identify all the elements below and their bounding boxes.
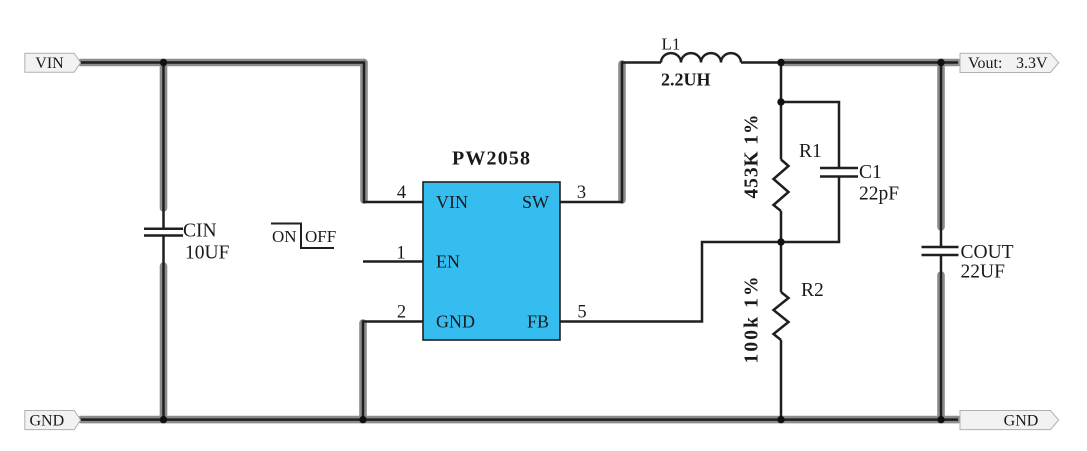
node L1 output [777,59,784,66]
svg-text:EN: EN [436,252,460,272]
capacitor C1 plates [820,168,858,177]
wire bottom GND rail (gray) [81,416,958,424]
wire COUT bottom branch (gray) [937,275,945,417]
svg-text:ON: ON [272,227,297,246]
svg-text:22UF: 22UF [961,261,1006,282]
wire VIN top rail (gray underlay) [81,59,364,67]
svg-text:4: 4 [397,183,406,203]
svg-text:CIN: CIN [183,221,217,242]
svg-text:VIN: VIN [436,192,468,212]
wire C1 top branch [781,102,839,168]
wire CIN top branch (gray) [160,64,168,208]
svg-text:GND: GND [1004,413,1039,430]
svg-text:1: 1 [396,244,405,264]
wire EN stub [363,260,423,263]
wire R2 bottom to GND rail [780,340,783,420]
wire top right rail (gray) [781,63,941,228]
capacitor CIN plates [144,229,183,236]
op-amp U1 PW2058 IC body [423,182,560,340]
svg-text:R1: R1 [799,141,822,162]
svg-text:10UF: 10UF [185,242,230,263]
wire SW to inductor [560,63,661,203]
port tag GND right [960,411,1059,430]
wire VIN rail black line [80,63,423,203]
node CIN-GND [160,416,167,423]
wire pin2 to GND rail (gray) [359,323,367,417]
wire CIN lower black line [162,236,165,420]
svg-text:GND: GND [29,413,64,430]
node COUT-GND [937,416,944,423]
node R2-GND [777,416,784,423]
svg-text:SW: SW [522,192,549,212]
wire FB path [560,242,781,322]
svg-text:453K 1%: 453K 1% [742,115,763,199]
svg-text:3: 3 [577,183,586,203]
wire CIN branch black line [162,63,165,229]
wire to Vout tag black [941,61,958,64]
switch ON/OFF symbol lines [271,224,334,249]
wire C1 bottom branch [781,177,839,243]
wire CIN bottom branch (gray) [160,266,168,417]
svg-text:R2: R2 [801,280,824,301]
capacitor COUT plates [922,247,959,255]
resistor R1 zigzag [774,160,789,212]
node FB divider [777,238,784,245]
port tag VIN [25,53,81,72]
svg-text:OFF: OFF [305,227,336,246]
wire inductor to junction and right rail [741,63,941,248]
svg-text:VIN: VIN [35,55,64,72]
wire GND rail black line [80,418,958,421]
svg-text:100k 1%: 100k 1% [742,277,763,364]
port tag GND left [25,411,81,430]
svg-text:L1: L1 [662,35,681,54]
wire pin2 black line [363,322,423,420]
wire vertical to pin4 (gray) [360,63,368,201]
svg-text:GND: GND [436,312,475,332]
wire R1 top feed [780,63,783,160]
wire R1 bottom to R2 top [780,211,783,292]
svg-text:PW2058: PW2058 [452,148,530,170]
svg-text:COUT: COUT [961,242,1014,263]
svg-text:2: 2 [397,303,406,323]
port tag Vout 3.3V [960,53,1059,72]
resistor R2 zigzag [774,292,789,340]
svg-text:5: 5 [577,303,586,323]
node C1 top [777,98,784,105]
node IC GND [359,416,366,423]
wire to Vout tag (gray) [941,59,958,67]
node Vout corner [937,59,944,66]
inductor L1 [661,53,741,62]
wire COUT lower black line [940,255,943,420]
svg-text:22pF: 22pF [859,184,899,205]
wire SW vertical (gray) [618,64,626,200]
node VIN-CIN [160,59,167,66]
svg-text:C1: C1 [859,162,882,183]
svg-text:2.2UH: 2.2UH [661,70,711,90]
svg-text:FB: FB [527,312,549,332]
